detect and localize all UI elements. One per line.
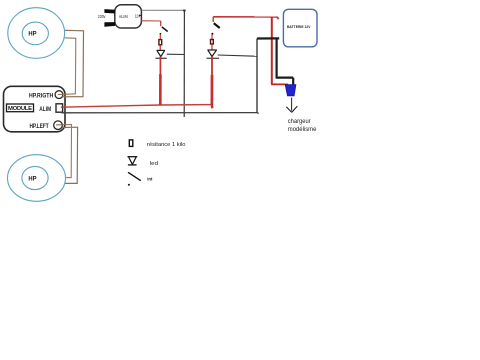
resistor R2 <box>211 40 214 45</box>
rail end tick <box>257 112 259 115</box>
wire HP bottom inner <box>62 125 72 178</box>
12v arrow tick <box>139 14 141 16</box>
wire ALIM gray output <box>142 9 185 11</box>
svg-text:ALIM: ALIM <box>119 14 128 20</box>
ALIM power supply box <box>115 5 142 28</box>
svg-text:ALIM: ALIM <box>39 106 51 113</box>
wire D1 anode down <box>159 57 161 74</box>
svg-text:MODULE: MODULE <box>8 106 32 112</box>
svg-text:HP: HP <box>28 175 37 182</box>
wire stub in HP left port <box>56 125 66 128</box>
wire D2 cathode <box>218 55 257 56</box>
connector (chargeur plug) <box>285 85 296 96</box>
plug prong top <box>104 9 115 13</box>
MODULE label box <box>7 104 34 112</box>
led D1 <box>155 50 166 58</box>
port HP left (circle) <box>54 121 63 130</box>
battery - black wire <box>257 37 279 39</box>
battery + red to connector <box>271 83 288 85</box>
wire D1 cathode <box>167 53 185 55</box>
wire stub in HP right port <box>58 94 67 97</box>
port ALIM (square) <box>56 104 63 112</box>
resistor R1 <box>159 40 162 45</box>
port HP right (circle) <box>55 91 63 99</box>
legend led symbol <box>128 157 138 165</box>
red drop to switch S1 <box>160 21 162 26</box>
svg-text:led: led <box>150 161 158 167</box>
svg-text:résitance 1 kilo: résitance 1 kilo <box>147 142 185 148</box>
red link R1-D1 <box>159 45 161 50</box>
legend resistor symbol <box>129 140 133 147</box>
black drop to connector <box>276 38 294 85</box>
wire D2 anode down <box>211 56 213 75</box>
switch S2 <box>211 23 219 35</box>
svg-text:int: int <box>147 176 153 182</box>
red link R2-D2 <box>211 45 213 50</box>
svg-text:230v: 230v <box>98 14 106 20</box>
svg-text:BATTERIE 12V: BATTERIE 12V <box>287 24 311 29</box>
speaker HP top <box>8 8 65 59</box>
black vertical to ground rail <box>256 39 258 113</box>
svg-text:HP.LEFT: HP.LEFT <box>30 123 49 130</box>
module box <box>4 86 66 132</box>
svg-text:HP.RIGTH: HP.RIGTH <box>29 92 54 99</box>
battery + red vertical <box>271 17 273 84</box>
red rail from module <box>61 105 212 108</box>
wire HP top inner <box>64 38 76 95</box>
ground rail <box>62 112 258 114</box>
red wire end tick <box>277 17 279 19</box>
node corner tick <box>183 10 185 12</box>
wire ground vertical <box>183 10 185 117</box>
legend switch symbol <box>128 172 141 180</box>
svg-text:modélisme: modélisme <box>288 126 317 133</box>
red stub S2-R2 <box>211 35 213 40</box>
wire ALIM 12v red <box>142 20 161 22</box>
plug prong bottom <box>104 22 115 27</box>
switch S1 <box>160 27 168 35</box>
arrow down <box>286 98 297 113</box>
wire HP top outer <box>63 30 84 97</box>
led D2 <box>207 50 220 58</box>
red top wire to battery <box>213 16 278 18</box>
battery box BATTERIE 12V <box>283 9 317 47</box>
red rail end blob <box>210 103 213 108</box>
speaker HP bottom <box>8 155 66 202</box>
legend switch dot <box>128 184 130 186</box>
red stub S1-R1 <box>159 34 161 39</box>
svg-text:chargeur: chargeur <box>288 118 311 125</box>
svg-text:HP: HP <box>28 30 37 37</box>
red drop to switch S2 <box>212 17 214 22</box>
wire HP bottom outer <box>62 127 77 183</box>
